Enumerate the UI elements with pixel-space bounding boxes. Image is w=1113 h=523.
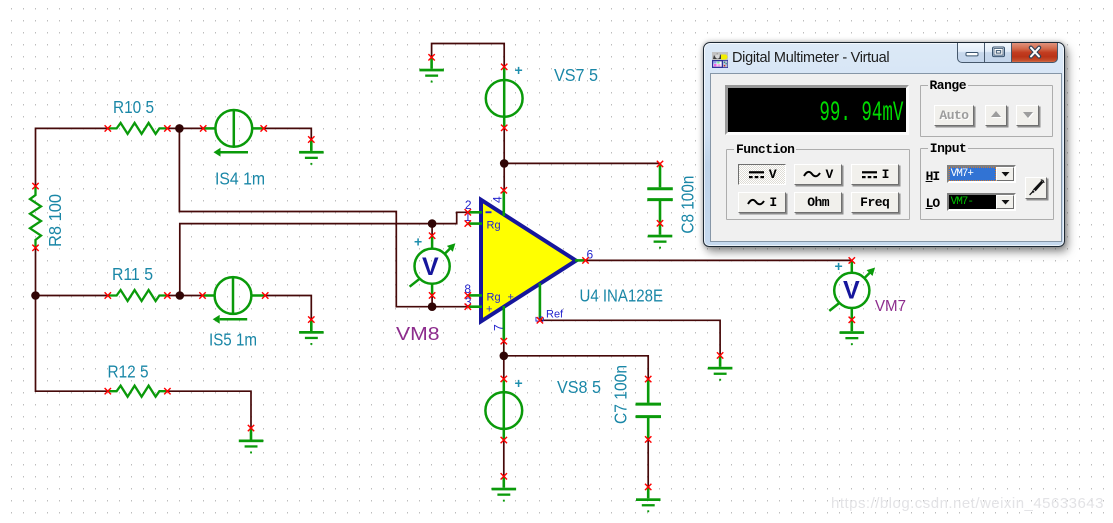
svg-text:Rg: Rg [487,292,501,304]
wire VS8 bottom to ground [503,440,505,476]
junction node R10-IS4 [175,124,184,133]
wire node to C7 [504,356,648,379]
probe button [1025,177,1047,199]
svg-text:7: 7 [492,324,506,331]
Range group [920,85,1053,137]
resistor R11 [108,290,168,301]
svg-text:IS4 1m: IS4 1m [215,168,265,188]
svg-text:R10 5: R10 5 [113,97,154,117]
svg-text:Rg: Rg [487,220,501,232]
svg-text:Ref: Ref [546,309,564,321]
ground (VM7 bottom) [840,320,865,345]
wire pin7 down to node [503,341,505,356]
ground (C8 bottom) [648,223,673,248]
capacitor C7 [636,379,661,439]
wire VM8 bottom stub [431,295,433,306]
Input group [920,148,1054,221]
svg-text:V: V [422,253,439,281]
junction node R11-IS5 [176,291,185,300]
svg-text:R12 5: R12 5 [108,362,149,382]
ground (Ref) [708,355,733,380]
wire IS5 node up across to op-amp pin2 [180,212,468,295]
svg-text:VS8 5: VS8 5 [557,377,601,397]
wire VS7 top to ground [432,44,505,67]
current source IS4 [203,110,264,157]
window icon [712,52,728,68]
wire R11 right to IS5 [167,295,202,297]
svg-text:R11 5: R11 5 [112,264,153,284]
junction node VM8 top [428,219,437,228]
resistor R12 [108,386,168,397]
svg-text:+: + [486,304,492,316]
svg-text:C7 100n: C7 100n [611,365,631,424]
capacitor C8 [647,164,673,223]
resistor R10 [108,123,168,134]
title buttons [957,43,1060,63]
svg-text:+: + [515,62,523,78]
wire IS4 node down across to op-amp pin3 [179,128,467,306]
wire node down to R12 row [36,296,108,392]
junction node VS7 bottom [500,159,509,168]
wire C7 bottom to ground [647,439,649,487]
svg-text:+: + [508,292,514,304]
ground (R12 right) [239,428,263,453]
multimeter window [703,42,1065,247]
svg-text:VM8: VM8 [396,323,440,344]
wire left top horizontal R10 row [36,128,108,186]
ground (IS4 right) [299,140,324,165]
ground (VS7 top) [419,57,444,82]
x pin marks [32,54,855,490]
wire IS4 right to ground [264,128,312,139]
wire node to C8 [504,162,660,165]
resistor R8 (vertical) [30,186,41,248]
svg-text:+: + [515,375,523,391]
ground (C7 bottom) [636,487,661,512]
wire VS7 bottom to node [503,128,505,164]
voltage source VS7 [486,67,523,128]
LCD display [725,85,909,135]
current source IS5 [203,277,266,324]
svg-text:VS7 5: VS7 5 [554,65,598,85]
svg-text:+: + [414,234,422,250]
voltmeter VM8 [410,236,456,296]
wire node down to VS8 [503,356,505,379]
junction node VS8 top [500,352,509,361]
wire VM8 top stub [431,224,433,236]
Function group [726,149,910,221]
svg-text:6: 6 [587,248,594,262]
ground (IS5 right) [299,320,324,345]
wire R8 bottom to node [35,248,37,296]
voltmeter VM7 [829,260,875,319]
wire node to R11 [36,295,108,297]
svg-text:IS5 1m: IS5 1m [209,329,257,349]
junction node VM8 bottom [428,302,437,311]
wire pin5 Ref to ground [540,320,720,355]
wire IS5 right to ground [265,296,311,320]
svg-text:U4 INA128E: U4 INA128E [580,286,664,306]
wire R12 right to ground [167,391,251,428]
watermark [831,495,1104,512]
svg-text:5: 5 [533,316,547,323]
svg-text:C8 100n: C8 100n [678,176,698,234]
svg-text:R8 100: R8 100 [45,194,65,247]
svg-text:VM7: VM7 [875,298,906,315]
wire pin6 output to VM7 [586,259,852,261]
svg-text:V: V [843,277,860,305]
wire R10 right to IS4 [167,127,203,129]
voltage source VS8 [485,379,522,440]
svg-text:+: + [835,258,843,274]
op-amp U4 INA128E [468,190,586,341]
wire node down to pin4 [503,163,505,190]
ground (VS8 bottom) [492,476,517,501]
svg-text:4: 4 [491,196,505,203]
junction node R8-R11 [31,291,40,300]
op-amp minus label [486,211,492,213]
